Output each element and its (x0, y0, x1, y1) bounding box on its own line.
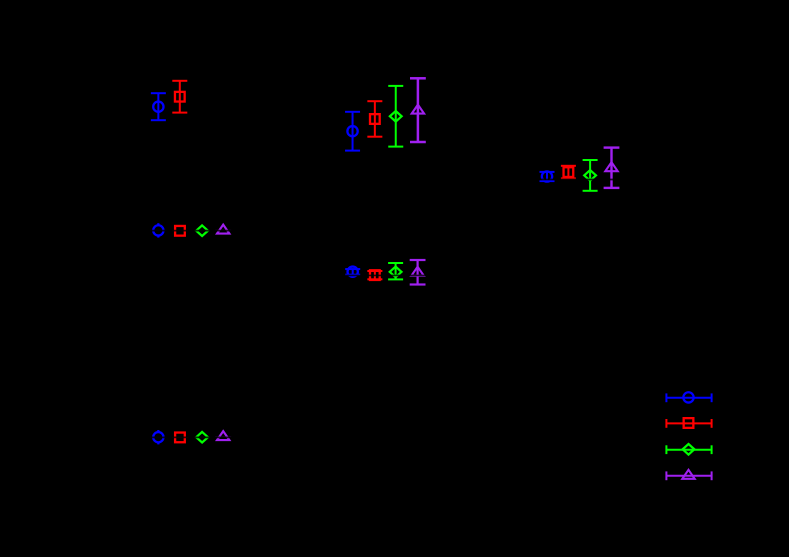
ratio row1 unity: black reference line (visible only where it crosses markers) (148, 230, 235, 232)
group2 data point: green diamond marker with error bar (388, 86, 403, 147)
ratio group2 point: green diamond marker with error bar (388, 263, 403, 279)
ratio row2: red square marker (172, 433, 188, 443)
legend entry: blue circle with horizontal error bar (666, 392, 711, 402)
ratio row2: green diamond marker (194, 432, 210, 443)
group3 data point: blue circle marker with error bar (540, 171, 555, 181)
ratio group2 point: red square marker with error bar (367, 270, 382, 280)
group1 data point: blue circle marker with error bar (151, 93, 166, 120)
ratio row1: red square marker (172, 226, 188, 236)
group1 data point: red square marker with error bar (172, 81, 187, 113)
legend entry: purple triangle with horizontal error bar (666, 470, 711, 480)
ratio group2 unity: black reference line (visible only where it crosses markers) (342, 274, 428, 276)
ratio row1: purple triangle marker (215, 225, 231, 234)
ratio group2 point: blue circle marker with error bar (345, 267, 360, 277)
legend entry: red square with horizontal error bar (666, 418, 711, 428)
legend entry: green diamond with horizontal error bar (666, 444, 711, 455)
group3 data point: green diamond marker with error bar (583, 160, 598, 191)
group2 data point: red square marker with error bar (367, 101, 382, 137)
ratio row1: green diamond marker (194, 225, 210, 236)
ratio row2: purple triangle marker (215, 431, 231, 440)
group2 data point: purple triangle marker with error bar (410, 78, 426, 142)
group3 data point: purple triangle marker with error bar (604, 148, 620, 188)
ratio row2 unity: black reference line (visible only where it crosses markers) (148, 436, 235, 438)
group3 data point: red square marker with error bar (561, 166, 576, 179)
ratio row1: blue circle marker (150, 223, 166, 237)
top panel threshold: black reference line (visible only where it crosses markers) (90, 179, 755, 181)
ratio row2: blue circle marker (150, 430, 166, 444)
ratio group2 point: purple triangle marker with error bar (410, 260, 426, 285)
group2 data point: blue circle marker with error bar (345, 112, 360, 151)
